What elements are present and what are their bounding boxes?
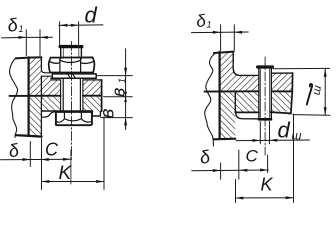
nut outline <box>49 57 95 72</box>
dim K line right fig <box>236 197 294 199</box>
svg-text:C: C <box>45 140 59 160</box>
mid heavy boundary line <box>205 90 293 92</box>
wall wavy break edge right <box>205 52 217 146</box>
svg-text:1: 1 <box>19 24 24 34</box>
upper plate hatch right of stud <box>272 73 293 91</box>
dim delta/C line <box>1 158 72 160</box>
dim delta/C line right fig <box>192 169 269 172</box>
svg-text:C: C <box>246 147 259 166</box>
dim l_sh label (rotated) <box>307 84 312 105</box>
wall right face <box>40 57 42 135</box>
wall bottom edge <box>16 135 42 136</box>
svg-text:δ: δ <box>198 146 212 168</box>
svg-text:1: 1 <box>118 78 129 84</box>
dim K ext lines right fig <box>236 114 294 203</box>
stud heavy top <box>258 65 273 68</box>
wall top edge right <box>214 52 234 53</box>
stud thread inner lines <box>261 69 270 118</box>
plate right foot step <box>92 111 100 116</box>
bracket upper hatch (wall column + shelf) <box>220 52 259 92</box>
dim d: extension lines <box>60 22 79 45</box>
plate bottom right of stud <box>270 112 291 113</box>
nut chamfer arcs <box>49 60 94 63</box>
wall wavy break edge <box>10 58 18 137</box>
dim K right extension line <box>103 117 105 190</box>
bolt end thread inner lines <box>63 49 79 59</box>
wall column hatch upper <box>29 57 42 95</box>
lower plate hatch left <box>41 96 60 112</box>
plate right edge <box>101 80 103 111</box>
svg-text:K: K <box>261 175 274 195</box>
wall left face <box>28 57 30 135</box>
dim delta1 left: line and arrows <box>2 36 53 39</box>
bracket underside outline <box>42 111 57 117</box>
wall left face right fig <box>219 52 221 139</box>
stud body <box>259 67 271 119</box>
bolt axis center line <box>71 42 73 161</box>
bolt head facet lines <box>64 112 81 119</box>
axis extension to K line <box>70 150 72 184</box>
stud axis center line <box>264 57 266 155</box>
svg-text:в: в <box>98 109 119 119</box>
dim K line <box>42 181 105 183</box>
bolt head chamfer arcs <box>56 119 92 123</box>
bolt threaded end <box>61 46 82 59</box>
upper plate hatch right <box>83 80 102 96</box>
shelf bottom edge left of stud <box>235 111 259 113</box>
bolt end chamfer heavy top <box>60 45 82 48</box>
shelf top right of stud <box>272 72 293 74</box>
plate right edge right fig <box>289 73 293 114</box>
bolt shank <box>63 78 80 111</box>
fillet + ledge right of wall <box>41 70 50 73</box>
lower shelf hatch left of stud <box>235 91 259 112</box>
lower column right face + fillet + underside <box>235 91 259 119</box>
dim d_sh line and arrows <box>236 139 310 142</box>
dim l_sh extension lines <box>274 68 331 115</box>
stud stub heavy bottom <box>259 118 271 121</box>
lower shelf hatch right of stud <box>272 91 291 111</box>
dim delta1 right: extension lines <box>221 25 235 51</box>
upper plate hatch left <box>41 76 60 96</box>
wall upper right face + fillet + shelf top <box>233 52 259 76</box>
bracket bottom edge right fig <box>214 138 236 141</box>
svg-text:d: d <box>85 3 98 28</box>
spring washer <box>51 74 96 78</box>
dim delta/C extension lines <box>30 139 41 190</box>
dim d_sh extension lines <box>260 122 269 144</box>
svg-text:ш: ш <box>311 84 325 96</box>
dim l_sh vertical line with arrows <box>324 69 326 115</box>
dim delta1 right: line and arrows <box>192 31 249 34</box>
wall column hatch lower <box>29 96 42 136</box>
plates boundary heavy line <box>10 95 102 97</box>
lower plate bottom edge <box>42 110 92 112</box>
dim delta/C ext lines right fig <box>221 150 268 179</box>
svg-text:K: K <box>59 163 73 184</box>
wall top edge <box>16 57 42 58</box>
upper plate top edge left <box>41 75 50 77</box>
lower plate hatch right <box>83 96 102 112</box>
dim v/v1: extension lines <box>97 76 132 118</box>
spring washer split <box>67 74 75 78</box>
dim delta1 left: extension lines <box>26 30 40 56</box>
upper plate top edge right <box>51 79 102 81</box>
dim v/v1: vertical line with arrows <box>125 49 127 130</box>
svg-text:d: d <box>278 118 291 143</box>
bolt head outline <box>56 112 92 126</box>
lower bracket column hatch <box>220 91 236 138</box>
nut facet lines <box>60 58 81 72</box>
bolt hole edges <box>61 80 83 111</box>
svg-text:δ: δ <box>7 140 21 162</box>
svg-text:1: 1 <box>207 20 212 30</box>
dim d: line and arrows <box>59 24 103 27</box>
